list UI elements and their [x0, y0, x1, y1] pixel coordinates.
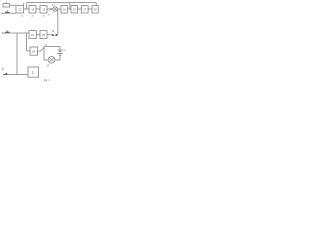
svg-text:18: 18	[46, 66, 49, 68]
svg-text:Fig. 1: Fig. 1	[44, 80, 50, 82]
svg-text:15: 15	[42, 15, 45, 17]
svg-text:31: 31	[32, 71, 36, 75]
svg-text:26: 26	[42, 33, 46, 37]
svg-text:14: 14	[31, 8, 35, 12]
svg-text:12: 12	[18, 8, 22, 12]
svg-text:24: 24	[31, 33, 35, 37]
svg-text:17: 17	[48, 15, 51, 17]
svg-text:+v: +v	[63, 50, 66, 52]
svg-text:28: 28	[32, 50, 36, 54]
svg-text:27: 27	[83, 8, 87, 12]
svg-text:11: 11	[21, 15, 23, 17]
svg-text:22: 22	[73, 8, 77, 12]
svg-text:13: 13	[31, 15, 34, 17]
svg-text:20: 20	[63, 8, 67, 12]
svg-text:16: 16	[42, 8, 46, 12]
svg-text:16: 16	[52, 31, 55, 33]
svg-text:30: 30	[94, 8, 98, 12]
